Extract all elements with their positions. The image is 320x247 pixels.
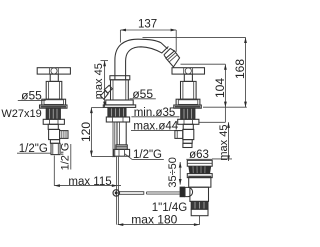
label 1/2"G left [17, 143, 51, 155]
pop-up knob on spout body [100, 85, 112, 99]
dimension max 180 [118, 213, 200, 227]
right tap neck [183, 140, 192, 144]
label 1/2"G rotated [59, 143, 71, 171]
svg-text:1"1/4G: 1"1/4G [152, 202, 187, 214]
dimension max 45 left [93, 61, 108, 108]
dimension 137 top [120, 19, 176, 52]
right tap body [181, 81, 197, 99]
label 1/2"G middle with leader [125, 149, 164, 161]
left tap post [50, 74, 58, 81]
left tap nut [43, 119, 64, 124]
drain threaded pipe [191, 201, 208, 209]
left tap cross handle bar [37, 68, 70, 74]
drain flange [187, 160, 212, 166]
spout gooseneck outer curve [115, 39, 168, 79]
label max.Ø44 [131, 121, 180, 133]
right tap supply [183, 143, 192, 147]
left tap neck [50, 140, 59, 144]
spout threaded shank [108, 108, 126, 117]
spout collar [110, 76, 130, 80]
label Ø55 middle [130, 87, 156, 101]
left tap valve block [49, 129, 68, 139]
svg-text:137: 137 [138, 19, 157, 31]
svg-text:120: 120 [79, 122, 93, 142]
spout flange [103, 100, 135, 107]
left tap flange [40, 105, 68, 108]
spout nut [106, 117, 129, 122]
svg-text:168: 168 [233, 59, 247, 79]
label min.Ø35 [131, 107, 179, 119]
rod junction [113, 190, 119, 196]
dimension 35÷50 [167, 157, 181, 188]
right tap threaded shank [181, 108, 195, 119]
drain knurled ring [188, 166, 211, 173]
left tap supply [51, 143, 60, 154]
aerator [166, 51, 180, 67]
right tap base [176, 99, 200, 105]
dimension max 45 right [212, 122, 232, 161]
dimension 168 vertical [233, 37, 247, 107]
drain washer [187, 174, 212, 178]
spout body [111, 80, 129, 100]
pop-up lift rod upper [113, 122, 115, 157]
svg-text:W27x19: W27x19 [1, 108, 41, 120]
drain pivot connector [180, 187, 193, 198]
left tap body [46, 81, 62, 99]
svg-text:35÷50: 35÷50 [167, 157, 179, 188]
pop-up rod lower [117, 156, 119, 224]
drain upper body [189, 178, 211, 188]
dimension 120 [79, 108, 116, 157]
dimension 104 extension from aerator [181, 63, 226, 65]
extension line at y122 right [199, 121, 225, 123]
mounting plane extension right [203, 106, 247, 108]
dimension 104 vertical [213, 64, 227, 122]
svg-text:104: 104 [213, 78, 227, 98]
label Ø55 left [18, 89, 46, 103]
right tap flange [174, 105, 202, 108]
right tap valve block [175, 129, 194, 139]
spout gooseneck inner curve [126, 47, 163, 80]
right tap nut [178, 119, 199, 124]
left tap tube [48, 124, 58, 129]
drain lower body [190, 187, 209, 201]
hex nut [114, 149, 130, 156]
drain pipe end [191, 209, 208, 216]
right tap tube [183, 124, 193, 129]
svg-text:max 45: max 45 [218, 125, 230, 161]
svg-text:max 180: max 180 [131, 213, 177, 227]
svg-text:1/2"G: 1/2"G [59, 143, 71, 171]
svg-text:max 115: max 115 [68, 176, 111, 188]
right tap cross handle bar [172, 68, 205, 74]
dimension 168 extension line (spout top tangent) [143, 36, 246, 38]
compression fitting [116, 145, 127, 150]
right tap post [184, 74, 192, 81]
svg-text:max 45: max 45 [93, 63, 105, 99]
label Ø63 [186, 149, 212, 161]
horizontal pop-up linkage [120, 192, 180, 195]
spout tail tube [117, 122, 126, 145]
aerator band [162, 47, 174, 59]
dimension max 115 [54, 156, 121, 189]
left tap base [42, 99, 66, 105]
left tap threaded shank [46, 108, 60, 119]
